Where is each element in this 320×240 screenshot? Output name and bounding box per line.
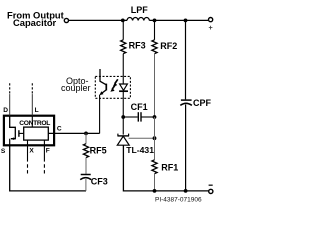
svg-text:CONTROL: CONTROL [19, 120, 50, 127]
svg-text:RF2: RF2 [160, 41, 177, 51]
wire CF1 node down to RF1 [154, 117, 156, 160]
svg-text:RF3: RF3 [129, 41, 146, 51]
wire F dashed continuation [43, 164, 45, 174]
wire CF1 left lead [123, 116, 137, 118]
opto emitter arrowhead [99, 91, 103, 95]
wire D dashed continuation [9, 83, 11, 93]
svg-text:L: L [35, 107, 39, 114]
wire opto emitter down [99, 95, 101, 134]
wire LED cathode down to CF1 node [122, 92, 124, 135]
wire TL-431 ref [129, 137, 155, 139]
resistor RF2 [152, 40, 157, 54]
svg-text:CF1: CF1 [131, 102, 148, 112]
resistor RF1 [152, 160, 157, 174]
svg-text:Capacitor: Capacitor [13, 17, 57, 28]
opto LED D1 [120, 84, 128, 90]
svg-text:TL-431: TL-431 [126, 145, 154, 155]
svg-text:S: S [1, 148, 6, 155]
opto LED cathode bar [119, 90, 128, 92]
inductor LPF [127, 17, 149, 20]
node junction top CPF [184, 19, 188, 23]
svg-text:X: X [29, 147, 34, 154]
svg-text:RF5: RF5 [90, 146, 107, 156]
opto-coupler dashed box U1 [95, 76, 130, 98]
shunt regulator TL-431 [118, 135, 130, 137]
minus sign at output [209, 184, 213, 186]
wire CF1 right lead [141, 116, 154, 118]
svg-text:coupler: coupler [61, 83, 91, 93]
wire S lead down [10, 146, 86, 191]
resistor RF3 [121, 40, 126, 54]
opto phototransistor base bar [105, 84, 107, 91]
svg-text:CF3: CF3 [91, 176, 108, 186]
wire top rail right of inductor [149, 19, 208, 21]
wire CPF bottom lead [185, 105, 187, 191]
svg-text:LPF: LPF [131, 5, 149, 15]
wire RF5 top lead [85, 133, 87, 143]
capacitor CF1 [137, 112, 139, 121]
wire TL-431 anode down and right rail corner [123, 145, 208, 191]
opto light arrow 2 [112, 85, 115, 89]
wire X lead [27, 140, 29, 162]
wire RF1 bottom lead [154, 174, 156, 191]
wire gate to internal box [19, 132, 23, 134]
terminal output + [209, 18, 213, 22]
capacitor CF3 top plate [81, 174, 91, 176]
wire L lead [31, 94, 33, 116]
svg-text:D: D [3, 107, 8, 114]
svg-text:CPF: CPF [193, 98, 212, 108]
node CPF bottom rail [184, 189, 188, 193]
node CF1 right [153, 115, 157, 119]
wire RF2 top lead [154, 20, 156, 39]
svg-text:C: C [57, 126, 62, 133]
node CF1 left [121, 115, 125, 119]
terminal input [64, 18, 68, 22]
wire F lead [43, 140, 45, 162]
wire CPF top lead [185, 20, 187, 99]
wire RF2 down to CF1 node [154, 54, 156, 117]
svg-text:RF1: RF1 [161, 162, 178, 172]
wire D lead [9, 94, 11, 116]
capacitor CPF top plate [181, 99, 192, 101]
transistor gate bar [18, 130, 20, 137]
node junction top RF2 [153, 19, 157, 23]
opto phototransistor emitter [101, 90, 106, 94]
IC U2 CONTROL block [4, 116, 54, 146]
wire RF3 to opto box [122, 54, 124, 84]
node RF1 bottom rail [153, 189, 157, 193]
opto light arrow 1 [115, 79, 118, 83]
node ref / RF2 line [153, 136, 157, 140]
capacitor CF3 curved plate [80, 178, 91, 180]
wire X dashed continuation [27, 164, 29, 174]
wire L dashed continuation [31, 83, 33, 93]
terminal output - [209, 189, 213, 193]
svg-text:PI-4387-071906: PI-4387-071906 [155, 197, 202, 204]
svg-text:F: F [46, 147, 50, 154]
wire top rail [69, 19, 127, 21]
wire C pin to opto emitter [48, 132, 99, 134]
opto phototransistor collector stub [100, 69, 106, 85]
wire CF3 bottom lead [85, 179, 87, 191]
node junction top RF3 [121, 19, 125, 23]
node C wire / RF5 [84, 132, 88, 136]
wire L inside IC [31, 116, 33, 127]
capacitor CPF curved plate [180, 103, 192, 105]
transistor Q1 MOSFET inside IC [10, 116, 16, 139]
IC internal regulator box [24, 127, 49, 140]
wire RF5 to CF3 [85, 158, 87, 174]
wire RF3 top lead [122, 20, 124, 39]
svg-text:+: + [208, 23, 212, 32]
resistor RF5 [83, 144, 88, 158]
